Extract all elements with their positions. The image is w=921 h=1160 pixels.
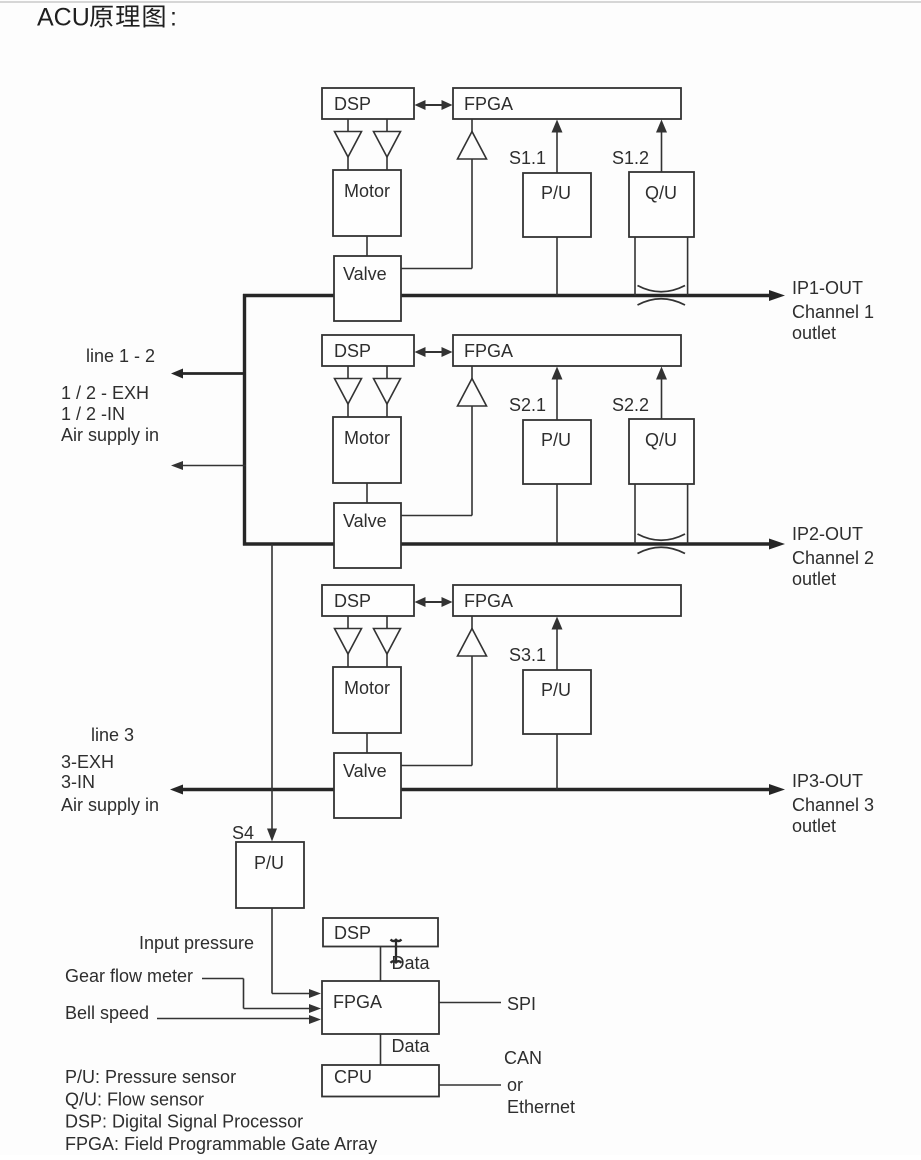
svg-text:P/U: Pressure sensor: P/U: Pressure sensor (65, 1067, 236, 1087)
wire driver B to Motor channel 2 (386, 404, 388, 417)
bidirectional arrow DSP-FPGA channel 3 (421, 601, 447, 603)
DSP block bottom (323, 918, 438, 947)
DSP block channel 1 (322, 88, 414, 119)
flow restrictor body channel 1 (634, 237, 636, 296)
wire Valve feedback vertical channel 3 (471, 656, 473, 766)
wire DSP to driver A channel 1 (347, 119, 349, 132)
wire Motor to Valve channel 1 (366, 236, 368, 256)
svg-text:1 / 2 - EXH: 1 / 2 - EXH (61, 383, 149, 403)
Valve block channel 2 (334, 503, 401, 568)
svg-text:Air supply in: Air supply in (61, 795, 159, 815)
wire driver B to Motor channel 1 (386, 157, 388, 170)
svg-text:Gear flow meter: Gear flow meter (65, 966, 193, 986)
wire P/U down to outlet bus channel 1 (556, 237, 558, 296)
driver triangle A channel 1 (335, 132, 362, 158)
svg-text:IP2-OUT: IP2-OUT (792, 524, 863, 544)
P/U pressure sensor block S4 (236, 842, 304, 908)
wire DSP to FPGA bottom (380, 947, 382, 982)
title glyph 0 (90, 6, 113, 28)
driver triangle A channel 3 (335, 629, 362, 655)
title glyph 1 (116, 5, 139, 26)
wire S4 sensor to FPGA input (271, 908, 273, 994)
wire feedback triangle to FPGA channel 3 (471, 616, 473, 629)
svg-text:DSP: DSP (334, 591, 371, 611)
air inlet arrow channel 3 bus (170, 785, 183, 795)
svg-text:IP1-OUT: IP1-OUT (792, 278, 863, 298)
top border line (0, 1, 921, 3)
wire DSP to driver B channel 2 (386, 366, 388, 379)
wire CPU to CAN/Ethernet (439, 1084, 501, 1086)
svg-text:Motor: Motor (344, 181, 390, 201)
CPU block (322, 1065, 439, 1097)
svg-text:outlet: outlet (792, 816, 836, 836)
wire Valve feedback vertical channel 2 (471, 406, 473, 516)
air line IN channel 1-2 (177, 465, 246, 467)
svg-text:Input pressure: Input pressure (139, 933, 254, 953)
svg-text:DSP: DSP (334, 94, 371, 114)
DSP block channel 3 (322, 585, 414, 616)
svg-text:S2.1: S2.1 (509, 395, 546, 415)
wire P/U to FPGA with arrow channel 1 (556, 129, 558, 173)
svg-text:1 / 2 -IN: 1 / 2 -IN (61, 404, 125, 424)
wire driver B to Motor channel 3 (386, 654, 388, 667)
svg-text:DSP: DSP (334, 341, 371, 361)
wire feedback triangle to FPGA channel 1 (471, 119, 473, 132)
svg-text:Motor: Motor (344, 678, 390, 698)
svg-text:CAN: CAN (504, 1048, 542, 1068)
svg-text:S1.1: S1.1 (509, 148, 546, 168)
svg-text:or: or (507, 1075, 523, 1095)
svg-text:Channel 1: Channel 1 (792, 302, 874, 322)
FPGA block channel 1 (453, 88, 681, 119)
svg-text:IP3-OUT: IP3-OUT (792, 771, 863, 791)
svg-text:DSP: Digital Signal Processor: DSP: Digital Signal Processor (65, 1112, 303, 1132)
svg-text:P/U: P/U (541, 430, 571, 450)
outlet bus channel 2 (243, 542, 770, 545)
svg-text:Channel 3: Channel 3 (792, 795, 874, 815)
svg-text:Bell speed: Bell speed (65, 1003, 149, 1023)
svg-text:Q/U: Flow sensor: Q/U: Flow sensor (65, 1090, 204, 1110)
svg-text:FPGA: FPGA (464, 591, 513, 611)
svg-text:3-IN: 3-IN (61, 772, 95, 792)
supply trunk vertical channels 1-2 (243, 294, 246, 546)
FPGA block channel 2 (453, 335, 681, 366)
svg-text:Data: Data (392, 1036, 431, 1056)
svg-text:Q/U: Q/U (645, 183, 677, 203)
svg-text:outlet: outlet (792, 323, 836, 343)
svg-text:Valve: Valve (343, 264, 387, 284)
wire P/U down to outlet bus channel 2 (556, 484, 558, 544)
wire Valve feedback horizontal channel 2 (401, 515, 472, 517)
svg-text:FPGA: Field Programmable Gate: FPGA: Field Programmable Gate Array (65, 1134, 377, 1154)
wire P/U to FPGA with arrow channel 3 (556, 626, 558, 670)
Valve block channel 3 (334, 753, 401, 818)
bidirectional arrow DSP-FPGA channel 2 (421, 351, 447, 353)
wire P/U to FPGA with arrow channel 2 (556, 376, 558, 420)
wire Q/U to FPGA with arrow channel 2 (661, 376, 663, 419)
driver triangle B channel 1 (374, 132, 401, 158)
outlet bus channel 3 (183, 788, 770, 791)
driver triangle B channel 2 (374, 379, 401, 405)
svg-text:S1.2: S1.2 (612, 148, 649, 168)
Valve block channel 1 (334, 256, 401, 321)
DSP block channel 2 (322, 335, 414, 366)
wire DSP to driver B channel 3 (386, 616, 388, 629)
wire Bell speed to FPGA (157, 1018, 313, 1020)
driver triangle A channel 2 (335, 379, 362, 405)
svg-text:S3.1: S3.1 (509, 645, 546, 665)
svg-text:S4: S4 (232, 823, 254, 843)
wire DSP to driver A channel 3 (347, 616, 349, 629)
venturi curves channel 2 (638, 534, 686, 540)
wire Valve feedback horizontal channel 3 (401, 765, 472, 767)
svg-text:FPGA: FPGA (464, 94, 513, 114)
svg-text:outlet: outlet (792, 569, 836, 589)
svg-text:line 1 - 2: line 1 - 2 (86, 346, 155, 366)
wire FPGA to SPI (439, 1002, 501, 1004)
text cursor I-beam (391, 940, 402, 963)
wire driver A to Motor channel 3 (347, 654, 349, 667)
feedback sensor triangle channel 2 (458, 379, 487, 407)
Motor block channel 3 (333, 667, 401, 733)
svg-text:Data: Data (392, 953, 431, 973)
svg-text:Valve: Valve (343, 511, 387, 531)
wire Motor to Valve channel 2 (366, 483, 368, 503)
air line EXH channel 1-2 (177, 372, 246, 375)
FPGA block bottom (322, 981, 439, 1034)
wire DSP to driver B channel 1 (386, 119, 388, 132)
svg-text:Valve: Valve (343, 761, 387, 781)
P/U pressure sensor block channel 2 (523, 420, 591, 484)
svg-text:DSP: DSP (334, 923, 371, 943)
P/U pressure sensor block channel 1 (523, 173, 591, 237)
wire Gear flow meter to FPGA (202, 978, 244, 980)
feedback sensor triangle channel 3 (458, 629, 487, 657)
svg-text:FPGA: FPGA (333, 992, 382, 1012)
title glyph 2 (144, 5, 165, 27)
wire driver A to Motor channel 2 (347, 404, 349, 417)
wire FPGA to CPU (380, 1034, 382, 1065)
svg-text::: : (170, 4, 177, 32)
svg-text:SPI: SPI (507, 994, 536, 1014)
svg-text:Channel 2: Channel 2 (792, 548, 874, 568)
svg-text:line 3: line 3 (91, 725, 134, 745)
Q/U flow sensor block channel 2 (629, 419, 694, 484)
driver triangle B channel 3 (374, 629, 401, 655)
feedback sensor triangle channel 1 (458, 132, 487, 160)
wire driver A to Motor channel 1 (347, 157, 349, 170)
svg-text:P/U: P/U (254, 853, 284, 873)
flow restrictor body channel 2 (634, 484, 636, 544)
wire feedback triangle to FPGA channel 2 (471, 366, 473, 379)
venturi curves channel 1 (638, 286, 686, 292)
FPGA block channel 3 (453, 585, 681, 616)
svg-text:Motor: Motor (344, 428, 390, 448)
wire P/U down to outlet bus channel 3 (556, 734, 558, 790)
svg-text:Ethernet: Ethernet (507, 1097, 575, 1117)
svg-text:P/U: P/U (541, 183, 571, 203)
svg-text:3-EXH: 3-EXH (61, 752, 114, 772)
Q/U flow sensor block channel 1 (629, 172, 694, 237)
svg-text:Air supply in: Air supply in (61, 425, 159, 445)
svg-text:S2.2: S2.2 (612, 395, 649, 415)
wire Q/U to FPGA with arrow channel 1 (661, 129, 663, 172)
wire DSP to driver A channel 2 (347, 366, 349, 379)
svg-text:ACU: ACU (37, 4, 90, 32)
wire Motor to Valve channel 3 (366, 733, 368, 753)
svg-text:P/U: P/U (541, 680, 571, 700)
bidirectional arrow DSP-FPGA channel 1 (421, 104, 447, 106)
Motor block channel 1 (333, 170, 401, 236)
svg-text:Q/U: Q/U (645, 430, 677, 450)
P/U pressure sensor block channel 3 (523, 670, 591, 734)
sense trunk bus2 to S4 sensor (271, 544, 273, 831)
Motor block channel 2 (333, 417, 401, 483)
svg-text:CPU: CPU (334, 1067, 372, 1087)
outlet bus channel 1 (243, 294, 770, 297)
svg-text:FPGA: FPGA (464, 341, 513, 361)
wire Valve feedback vertical channel 1 (471, 159, 473, 269)
wire Valve feedback horizontal channel 1 (401, 268, 472, 270)
